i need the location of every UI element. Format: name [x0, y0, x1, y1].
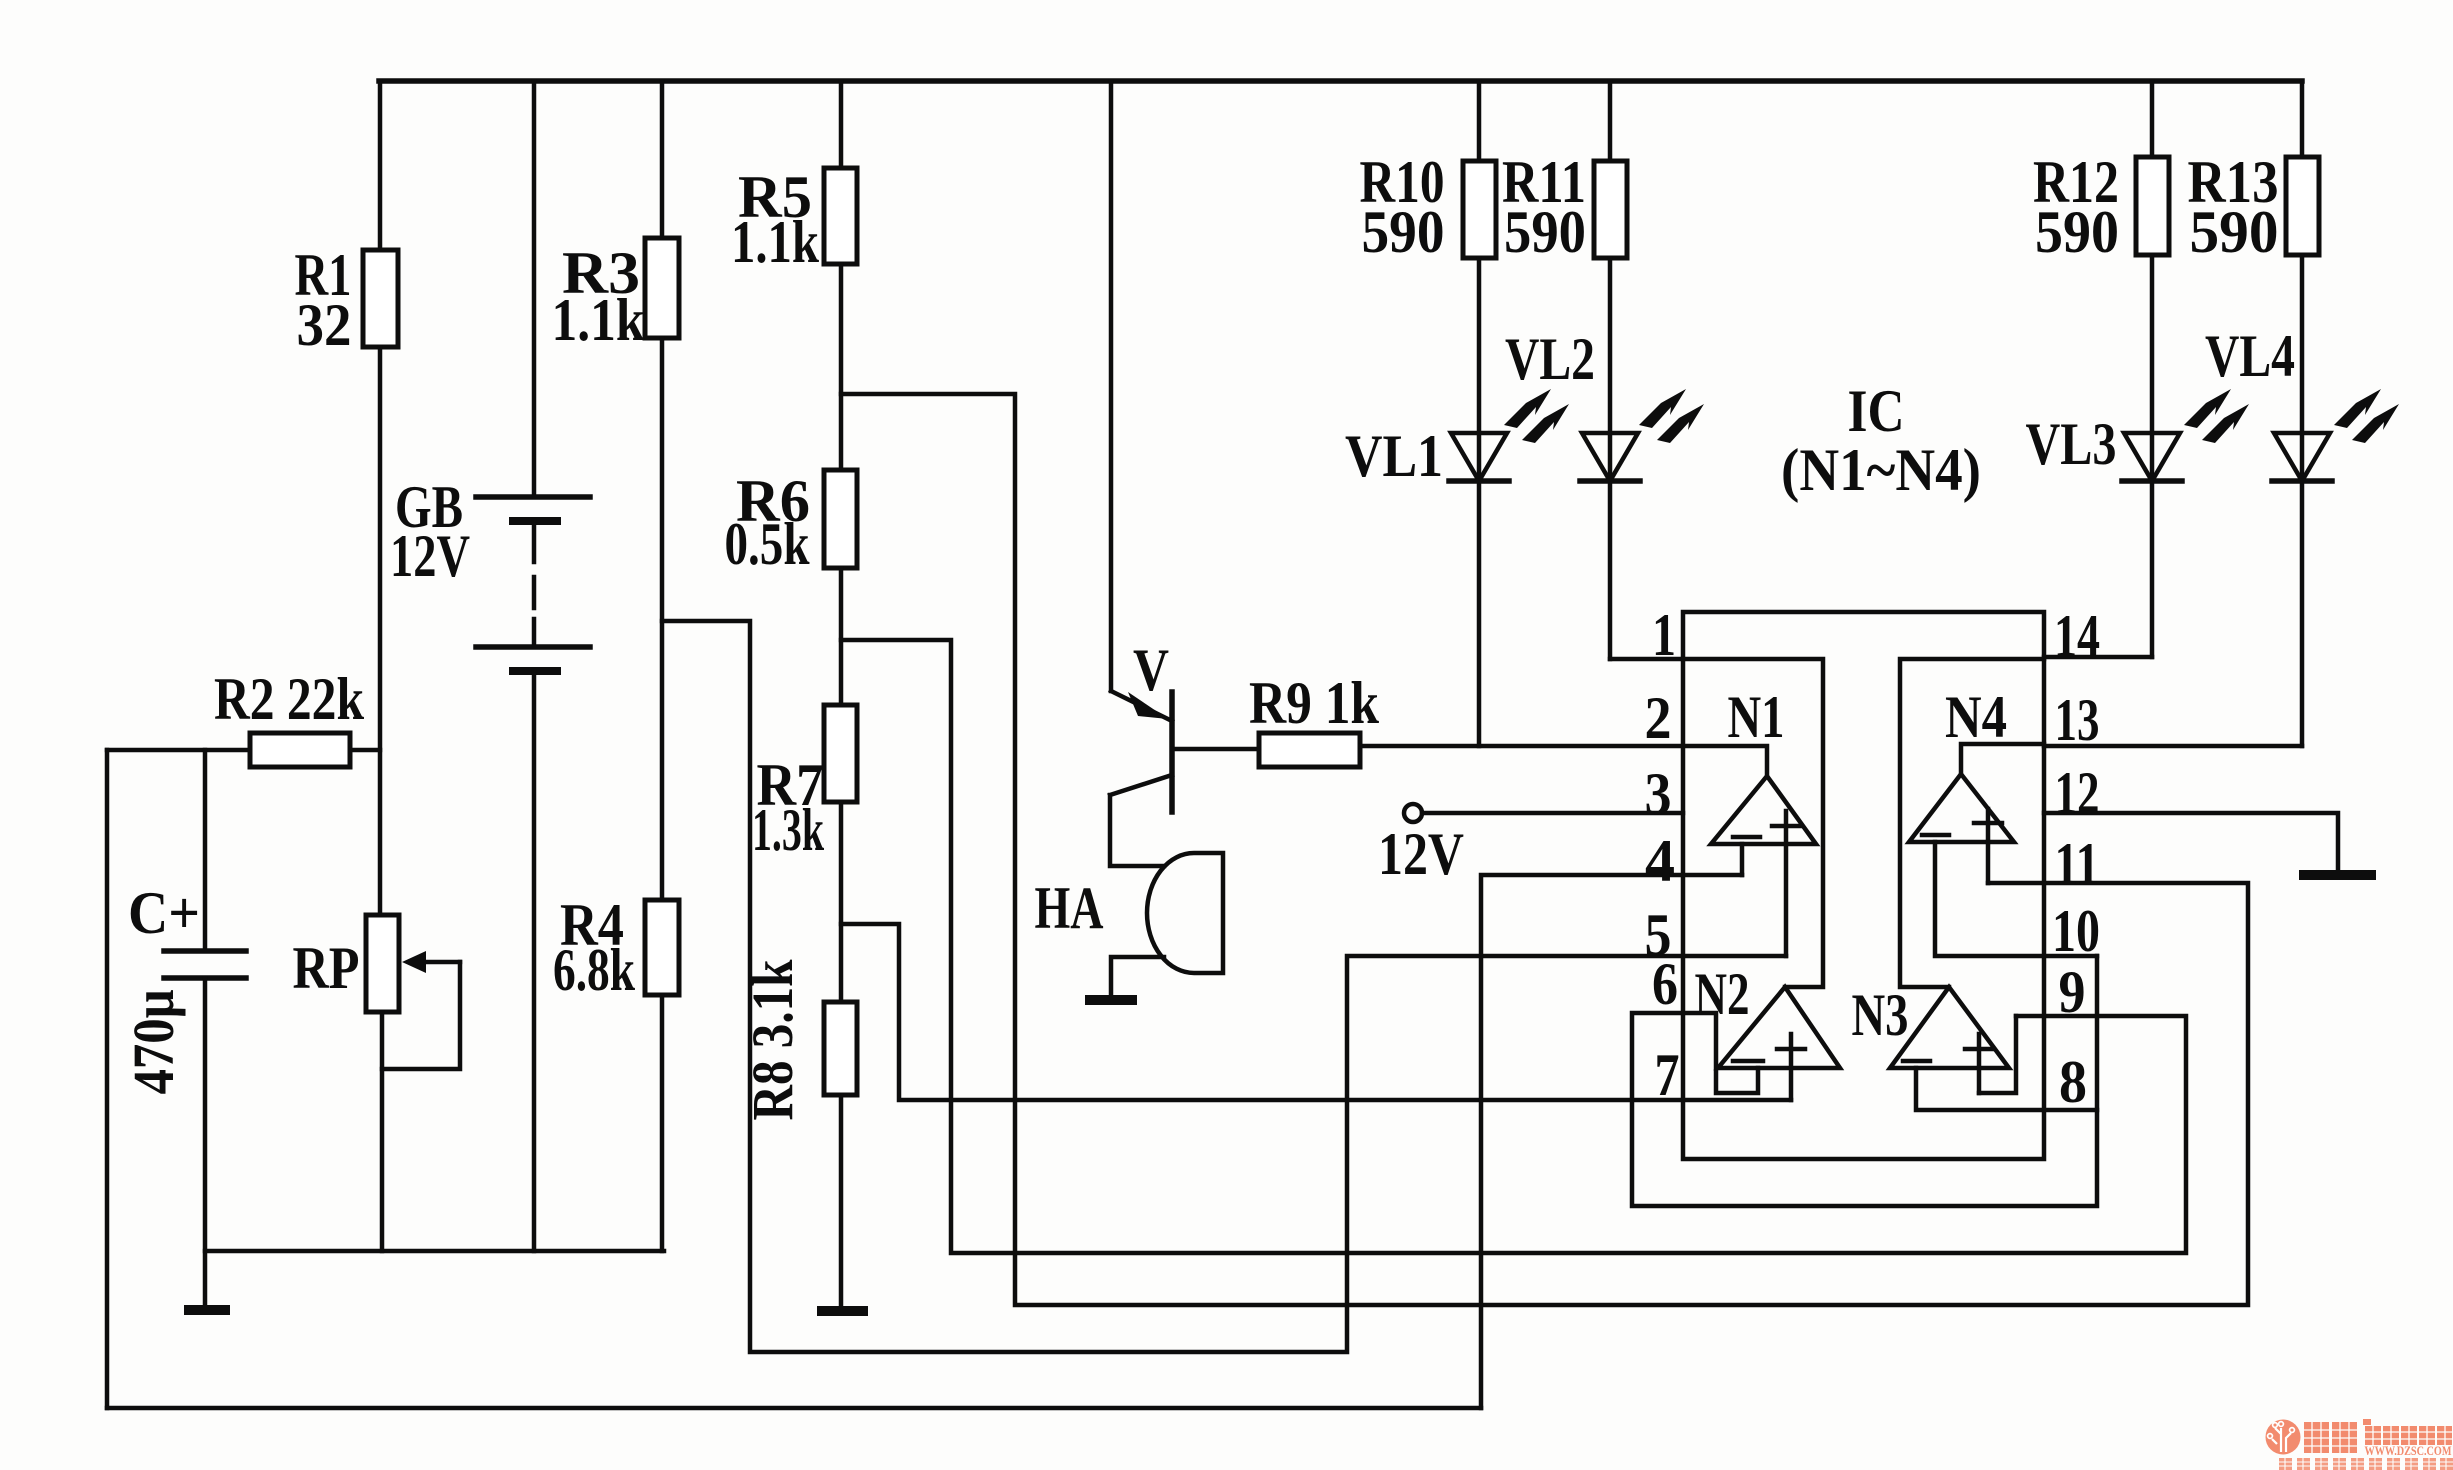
- svg-text:7: 7: [1655, 1042, 1680, 1108]
- wire tap R5/R6 to pin 11 (N4 plus): [841, 394, 2248, 1305]
- svg-text:590: 590: [1362, 199, 1445, 265]
- ground (R8): [817, 1306, 868, 1316]
- svg-text:1.1k: 1.1k: [731, 209, 820, 275]
- svg-text:0.5k: 0.5k: [725, 511, 810, 577]
- wire top supply rail: [379, 78, 2302, 84]
- watermark logo: [2266, 1419, 2453, 1470]
- svg-text:V: V: [1133, 637, 1169, 703]
- wire pin 2 row (R9 to N1 output): [1360, 746, 1767, 776]
- svg-text:11: 11: [2055, 831, 2100, 897]
- wire pin 4 net (N1 minus to bottom rail): [1481, 875, 1742, 1408]
- LED VL4: [2300, 255, 2305, 746]
- resistor R2 22k: [107, 748, 380, 753]
- potentiometer RP: [366, 915, 399, 1012]
- svg-text:470μ: 470μ: [121, 989, 186, 1094]
- battery GB 12V: [532, 81, 537, 497]
- svg-text:32: 32: [297, 292, 352, 358]
- svg-text:HA: HA: [1035, 875, 1104, 941]
- wire pin 1 inner net to N2 output: [1683, 659, 1823, 987]
- svg-text:12V: 12V: [390, 523, 470, 589]
- wire mid common rail: [205, 1249, 664, 1254]
- wire bottom rail: [107, 1406, 1481, 1411]
- LED VL1: [1477, 258, 1482, 746]
- LED VL2: [1608, 258, 1613, 659]
- wire pin 12 to ground: [2044, 813, 2338, 871]
- wire R1 branch from top rail: [378, 81, 383, 250]
- op-amp N1: [1711, 776, 1816, 844]
- IC box: [1683, 612, 2044, 1159]
- wire VL2 to pin 1: [1610, 657, 1683, 662]
- terminal 12V: [1404, 804, 1422, 822]
- svg-text:10: 10: [2052, 898, 2100, 964]
- resistor R3: [645, 238, 679, 338]
- speaker HA: [1147, 853, 1223, 973]
- op-amp N2: [1718, 987, 1840, 1068]
- transistor V: [1111, 691, 1172, 721]
- svg-text:(N1~N4): (N1~N4): [1781, 437, 1981, 503]
- svg-text:12V: 12V: [1378, 821, 1464, 887]
- resistor R7: [824, 705, 857, 802]
- svg-text:3: 3: [1645, 761, 1672, 827]
- svg-text:RP: RP: [293, 935, 360, 1001]
- wire VL3 to pin 14: [2044, 655, 2152, 660]
- svg-text:N1: N1: [1728, 684, 1785, 750]
- svg-text:R2 22k: R2 22k: [214, 666, 365, 732]
- svg-text:VL2: VL2: [1505, 326, 1595, 392]
- wire pin 10 net (N4 minus): [1935, 842, 2097, 956]
- svg-text:4: 4: [1645, 828, 1675, 894]
- svg-text:590: 590: [1504, 199, 1586, 265]
- resistor R5: [824, 168, 857, 264]
- resistor R4: [645, 900, 679, 995]
- ground (C): [184, 1305, 230, 1315]
- svg-text:N3: N3: [1852, 982, 1909, 1048]
- wire pin 9 step (N3 plus): [1979, 1016, 2016, 1093]
- svg-text:VL4: VL4: [2205, 323, 2295, 389]
- ground (pin 12): [2299, 870, 2376, 880]
- resistor R6: [824, 470, 857, 568]
- wire tap R7/R8 to pin 7 (N2 plus): [841, 924, 1791, 1100]
- wire VL4 to pin 13: [2044, 744, 2302, 749]
- svg-text:VL1: VL1: [1345, 423, 1443, 489]
- svg-text:6: 6: [1652, 951, 1678, 1017]
- wire tap R6/R7 to pin 9 (N3 plus): [841, 640, 2186, 1253]
- svg-text:2: 2: [1645, 685, 1672, 751]
- svg-text:14: 14: [2054, 603, 2100, 669]
- svg-text:VL3: VL3: [2026, 411, 2117, 477]
- wire HA to ground: [1111, 957, 1164, 996]
- svg-text:N2: N2: [1695, 961, 1750, 1027]
- wire R3/R4 branch: [660, 81, 665, 238]
- wire R3 to R4: [660, 338, 665, 900]
- op-amp N4: [1909, 774, 2014, 842]
- wire V collector branch from rail: [1109, 81, 1114, 691]
- resistor R8 3.1k: [824, 1002, 857, 1095]
- svg-text:590: 590: [2035, 199, 2119, 265]
- resistor R9 1k: [1259, 733, 1360, 767]
- resistor R13 590: [2300, 81, 2305, 157]
- resistor R10 590: [1477, 81, 1482, 161]
- wire pin 6 net (N2 minus bias): [1632, 956, 2097, 1206]
- resistor R12 590: [2150, 81, 2155, 157]
- svg-text:12: 12: [2055, 760, 2100, 826]
- wire pin 11 stub (N4 plus): [1986, 842, 1991, 883]
- svg-text:1.1k: 1.1k: [552, 287, 646, 353]
- svg-text:WWW.DZSC.COM: WWW.DZSC.COM: [2365, 1444, 2452, 1458]
- op-amp N3: [1890, 987, 2009, 1068]
- svg-text:1: 1: [1652, 602, 1676, 668]
- svg-text:590: 590: [2190, 199, 2279, 265]
- wire R5 branch: [839, 81, 844, 168]
- resistor R11 590: [1608, 81, 1613, 161]
- svg-text:8: 8: [2059, 1049, 2087, 1115]
- LED VL3: [2150, 255, 2155, 657]
- wire R1 to RP: [378, 347, 383, 915]
- svg-text:1.3k: 1.3k: [752, 797, 824, 863]
- resistor R1: [363, 250, 398, 347]
- wire V base to R9: [1172, 747, 1259, 752]
- wire pin 14 inner net to N3 output: [1900, 659, 2044, 987]
- svg-text:9: 9: [2059, 959, 2086, 1025]
- wire R3-R4 tap to N1 plus (pin 5 net): [662, 621, 1786, 1352]
- svg-text:C+: C+: [128, 880, 200, 946]
- svg-text:IC: IC: [1848, 378, 1905, 444]
- svg-text:N4: N4: [1945, 684, 2007, 750]
- svg-text:6.8k: 6.8k: [553, 937, 635, 1003]
- svg-text:13: 13: [2055, 687, 2100, 753]
- wire pin 8 net (N3 minus): [1916, 1068, 2097, 1110]
- svg-text:R9 1k: R9 1k: [1249, 670, 1380, 736]
- wire left outer loop: [105, 750, 110, 1408]
- ground (HA): [1085, 995, 1137, 1005]
- svg-text:R8 3.1k: R8 3.1k: [740, 959, 805, 1121]
- capacitor C 470u: [203, 750, 208, 951]
